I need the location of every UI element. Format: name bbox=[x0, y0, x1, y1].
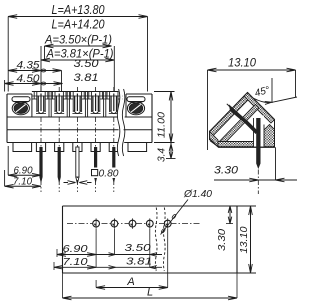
svg-text:7.10: 7.10 bbox=[63, 256, 88, 268]
svg-text:L=A+13.80: L=A+13.80 bbox=[52, 3, 105, 17]
svg-text:11.00: 11.00 bbox=[156, 112, 168, 138]
svg-text:13.10: 13.10 bbox=[228, 56, 256, 70]
svg-text:3.4: 3.4 bbox=[156, 148, 168, 162]
svg-text:3.50: 3.50 bbox=[74, 58, 100, 70]
svg-text:L: L bbox=[147, 287, 153, 299]
svg-text:3.81: 3.81 bbox=[126, 256, 152, 268]
svg-text:3.30: 3.30 bbox=[214, 165, 239, 177]
svg-text:A=3.50×(P-1): A=3.50×(P-1) bbox=[44, 35, 112, 47]
svg-text:0.80: 0.80 bbox=[99, 168, 119, 180]
svg-text:L=A+14.20: L=A+14.20 bbox=[52, 18, 105, 32]
svg-text:A: A bbox=[126, 276, 134, 288]
svg-text:3.50: 3.50 bbox=[125, 242, 151, 254]
svg-text:3.81: 3.81 bbox=[74, 72, 99, 84]
svg-text:3.30: 3.30 bbox=[216, 229, 228, 251]
svg-text:6.90: 6.90 bbox=[63, 243, 88, 255]
svg-text:Ø1.40: Ø1.40 bbox=[183, 188, 212, 200]
svg-text:13.10: 13.10 bbox=[238, 226, 250, 253]
